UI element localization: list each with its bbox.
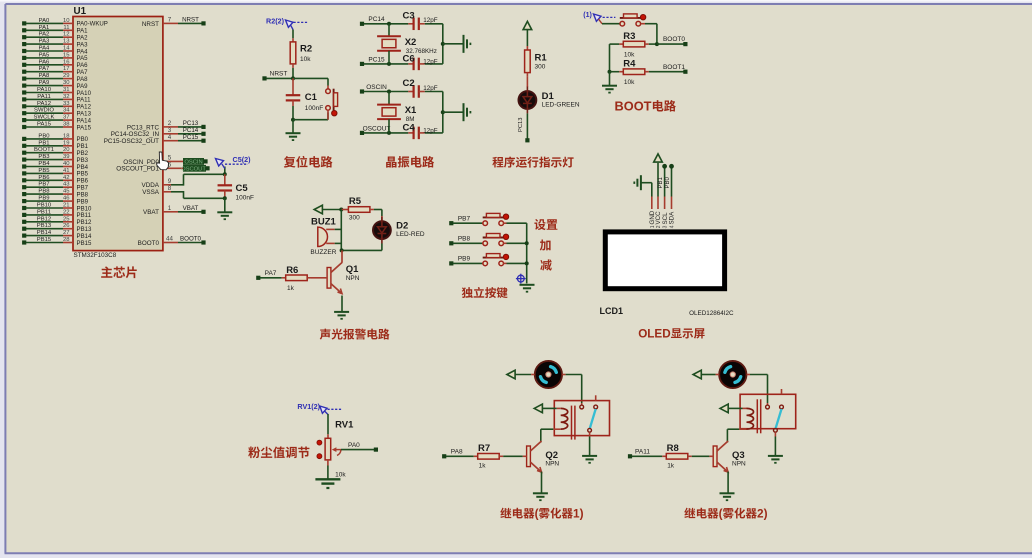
BOOT circuit red label BOOT电路: [615, 97, 677, 115]
resistor R8: [662, 454, 713, 460]
chip pin PB0 (pin 18, net PB0) wire: [22, 133, 89, 143]
svg-text:SWCLK: SWCLK: [34, 115, 55, 121]
chip pin PB3 (pin 39, net PB3) wire: [22, 154, 89, 164]
relay RL2 coil: [747, 408, 754, 429]
svg-text:PB7: PB7: [38, 182, 49, 188]
node junction under OSCOUT: [387, 131, 391, 135]
relay RL1 body: [554, 401, 609, 440]
chip pin PB2 (pin 20, net BOOT1) wire: [22, 147, 89, 157]
svg-text:13: 13: [63, 39, 70, 45]
relay RL2 switch to ground: [774, 432, 776, 455]
svg-text:LED-RED: LED-RED: [396, 231, 425, 238]
chip pin VSSA (pin 8) wire: [142, 185, 183, 196]
svg-text:NRST: NRST: [182, 17, 199, 24]
U1 value label STM32F103C8: [74, 252, 117, 259]
C2 value 12pF: [423, 85, 438, 92]
label 减: [540, 257, 552, 274]
svg-text:晶振电路: 晶振电路: [385, 152, 435, 170]
blue net label RV1(2) with selection arrow: [297, 402, 341, 415]
main chip red label 主芯片: [101, 262, 139, 281]
svg-text:D1: D1: [542, 91, 555, 102]
resistor R5: [341, 207, 382, 213]
wire D2 to collector node: [342, 244, 382, 251]
chip pin PA2 (pin 12, net PA2) wire: [22, 32, 88, 42]
net terminal PB9: [449, 256, 482, 266]
svg-text:PB12: PB12: [37, 216, 51, 222]
svg-text:STM32F103C8: STM32F103C8: [74, 252, 117, 259]
svg-text:主芯片: 主芯片: [101, 262, 139, 281]
LCD1 pin 3 SCL: [662, 197, 669, 229]
svg-text:PB5: PB5: [38, 168, 50, 174]
X1 reference label: [405, 105, 417, 116]
C1 reference label: [305, 92, 318, 103]
svg-text:Q3: Q3: [732, 450, 745, 461]
chip pin PA9 (pin 30, net PA9) wire: [22, 80, 88, 90]
chip pin PB9 (pin 46, net PB9) wire: [22, 196, 89, 206]
svg-text:PA15: PA15: [37, 122, 52, 128]
chip pin PB8 (pin 45, net PB8) wire: [22, 189, 89, 199]
svg-text:PB10: PB10: [37, 203, 52, 209]
svg-text:OLED12864I2C: OLED12864I2C: [689, 310, 734, 317]
net PA0 wire and terminal: [341, 442, 378, 452]
svg-text:RV1: RV1: [335, 420, 354, 431]
X1 value: [406, 116, 415, 123]
op-amp U1 main chip STM32F103C8 body: [73, 17, 163, 251]
relay RL1 switch to ground: [589, 432, 591, 455]
Q3 value NPN: [732, 461, 746, 468]
svg-text:PC14: PC14: [368, 16, 385, 23]
capacitor C2: [408, 85, 443, 98]
power symbol above R1: [523, 21, 532, 29]
svg-text:PB0: PB0: [38, 133, 50, 139]
svg-text:OSCIN: OSCIN: [184, 160, 202, 166]
svg-text:PA8: PA8: [77, 76, 89, 83]
R6 reference label: [286, 265, 298, 276]
D1 reference label: [542, 91, 555, 102]
R7 value 1k: [479, 462, 487, 469]
svg-text:10: 10: [63, 18, 70, 24]
svg-text:C5(2): C5(2): [233, 155, 252, 164]
X2 reference label: [405, 37, 417, 48]
svg-text:BOOT电路: BOOT电路: [615, 97, 677, 115]
LCD1 reference label: [600, 306, 624, 316]
blue selection arrow cursor near C5: [216, 159, 225, 169]
svg-text:OSCOUT: OSCOUT: [181, 167, 206, 173]
svg-text:Q1: Q1: [346, 264, 359, 275]
chip pin PB13 (pin 26, net PB13) wire: [22, 223, 92, 233]
wire BOOT button to BOOT0 node: [641, 24, 657, 44]
svg-text:29: 29: [63, 73, 70, 79]
BOOT push button: [620, 14, 646, 26]
R2 value 10k: [300, 56, 311, 63]
svg-text:R4: R4: [623, 59, 636, 70]
NRST net terminal: [262, 71, 293, 81]
svg-text:X1: X1: [405, 105, 417, 116]
transistor Q1: [327, 250, 342, 293]
wire motor M2 to relay RL2: [747, 375, 768, 406]
relay RL1 coil: [561, 408, 568, 429]
svg-text:9: 9: [168, 178, 172, 185]
svg-text:PA11: PA11: [635, 448, 650, 455]
svg-text:37: 37: [63, 115, 70, 121]
LCD1 value OLED12864I2C: [689, 310, 734, 317]
net terminal PB7: [449, 215, 482, 225]
svg-text:32.768KHz: 32.768KHz: [406, 48, 437, 55]
chip pin PA5 (pin 15, net PA5) wire: [22, 52, 88, 62]
svg-text:PB0: PB0: [665, 176, 671, 188]
svg-text:PA7: PA7: [39, 66, 50, 72]
svg-text:15: 15: [63, 52, 70, 58]
BUZ1 value BUZZER: [310, 249, 336, 256]
wire from R2(2) stub down to R2: [292, 30, 294, 39]
wire to BOOT button: [602, 23, 620, 25]
push button PB7: [482, 213, 509, 225]
R4 value 10k: [624, 79, 635, 86]
svg-text:PC13: PC13: [518, 117, 524, 132]
power symbol left of R5: [314, 205, 322, 214]
chip pin PA4 (pin 14, net PA4) wire: [22, 46, 88, 56]
svg-text:PB9: PB9: [458, 256, 471, 263]
svg-text:OSCOUT: OSCOUT: [363, 125, 391, 132]
wire VSSA to C5 bottom node: [184, 191, 225, 198]
svg-text:PB3: PB3: [38, 154, 50, 160]
svg-text:VBAT: VBAT: [143, 209, 159, 216]
svg-text:C5: C5: [236, 183, 249, 194]
net terminal PC15: [360, 56, 408, 66]
svg-text:C3: C3: [403, 11, 415, 22]
svg-text:NPN: NPN: [346, 275, 360, 282]
D2 value LED-RED: [396, 231, 425, 238]
chip pin PC13_RTC (pin 2, net PC13) wire: [127, 120, 206, 131]
net BOOT1 label and terminal: [663, 64, 688, 74]
wire NRST node to reset button top: [293, 78, 328, 85]
net terminal OSCIN: [360, 84, 408, 94]
net BOOT0 wire and terminal: [657, 36, 688, 46]
power symbol left of relay RL1 coil: [534, 404, 561, 413]
svg-text:44: 44: [166, 236, 173, 243]
svg-text:PB11: PB11: [37, 209, 51, 215]
dust adjust red label 粉尘值调节: [248, 443, 310, 461]
ground under relay RL1 switch: [582, 456, 597, 464]
svg-text:4: 4: [168, 134, 172, 141]
svg-text:BOOT1: BOOT1: [663, 64, 685, 71]
svg-text:8M: 8M: [406, 116, 415, 123]
svg-text:12pF: 12pF: [423, 59, 438, 66]
R8 reference label: [667, 443, 679, 454]
chip pin PA12 (pin 33, net PA12) wire: [22, 101, 91, 111]
relay RL2 pin circles and stub: [766, 389, 784, 409]
ground (rotated) of X2 circuit: [464, 35, 472, 53]
R1 reference label: [535, 53, 548, 64]
C3 value 12pF: [423, 17, 438, 24]
svg-text:PC15-OSC32_OUT: PC15-OSC32_OUT: [104, 138, 159, 145]
chip pin PB15 (pin 28, net PB15) wire: [22, 237, 92, 247]
svg-text:PA10: PA10: [37, 87, 52, 93]
svg-text:100nF: 100nF: [236, 194, 254, 201]
svg-text:减: 减: [540, 257, 552, 274]
svg-text:加: 加: [539, 236, 551, 253]
RV1 value 10k: [335, 472, 346, 479]
svg-text:1k: 1k: [667, 462, 675, 469]
svg-text:PB7: PB7: [458, 215, 471, 222]
svg-text:NPN: NPN: [545, 461, 559, 468]
ground of RV1 (large): [315, 479, 340, 489]
wire ground node to button bottom: [293, 113, 328, 120]
R5 value 300: [349, 215, 360, 222]
svg-text:PB9: PB9: [38, 196, 49, 202]
svg-text:PB15: PB15: [37, 237, 52, 243]
chip pin PB10 (pin 21, net PB10) wire: [22, 203, 92, 213]
svg-text:粉尘值调节: 粉尘值调节: [248, 443, 310, 461]
svg-text:VSSA: VSSA: [142, 189, 160, 196]
chip pin OSCOUT_PD1 (pin 6) with highlighted net label OSCOUT: [116, 162, 209, 173]
svg-text:2: 2: [656, 225, 662, 228]
Q2 value NPN: [545, 461, 559, 468]
svg-text:BUZ1: BUZ1: [311, 217, 337, 228]
relay RL1 pin circles and stub: [580, 395, 598, 409]
svg-text:45: 45: [63, 189, 70, 195]
chip pin PC15-OSC32_OUT (pin 4, net PC15) wire: [104, 134, 206, 145]
chip pin PC14-OSC32_IN (pin 3, net PC14) wire: [111, 127, 206, 138]
svg-text:8: 8: [168, 185, 172, 192]
svg-text:程序运行指示灯: 程序运行指示灯: [492, 153, 574, 170]
relay RL2 body: [740, 394, 796, 433]
alarm circuit red label 声光报警电路: [320, 326, 390, 343]
svg-text:100nF: 100nF: [305, 105, 323, 112]
svg-text:LED-GREEN: LED-GREEN: [542, 102, 580, 109]
vertical bus from R5 node down to Q1: [340, 210, 344, 253]
svg-text:17: 17: [63, 66, 70, 72]
svg-text:R7: R7: [478, 443, 490, 454]
svg-text:C4: C4: [403, 122, 416, 133]
svg-text:RV1(2): RV1(2): [297, 402, 320, 411]
R3 reference label: [623, 31, 635, 42]
chip pin PB12 (pin 25, net PB12) wire: [22, 216, 92, 226]
ground of Q1 emitter: [334, 296, 349, 320]
ground of Q3 emitter: [720, 472, 735, 501]
svg-text:PA2: PA2: [39, 32, 50, 38]
C5 value 100nF: [236, 194, 254, 201]
capacitor C4: [408, 127, 443, 139]
chip pin OSCIN_PD0 (pin 5) with highlighted net label OSCIN: [123, 155, 207, 166]
svg-text:PB1: PB1: [658, 176, 664, 188]
svg-text:设置: 设置: [534, 216, 558, 233]
ground under relay RL2 switch: [768, 456, 783, 464]
push button PB8: [482, 234, 509, 246]
chip pin PB1 (pin 19, net PB1) wire: [22, 140, 89, 150]
R6 value 1k: [287, 285, 295, 292]
svg-text:32: 32: [63, 94, 70, 100]
BUZ1 reference label: [311, 217, 337, 228]
svg-text:39: 39: [63, 154, 70, 160]
power symbol left of motor M1: [507, 370, 535, 379]
buzzer BUZ1: [318, 227, 342, 246]
chip pin PB14 (pin 27, net PB14) wire: [22, 230, 92, 240]
svg-text:复位电路: 复位电路: [283, 152, 333, 170]
svg-text:20: 20: [63, 147, 70, 153]
svg-text:SDA: SDA: [669, 211, 676, 225]
power symbol left of relay RL2 coil: [720, 404, 747, 413]
chip pin PA0-WKUP (pin 10, net PA0) wire: [22, 18, 108, 28]
node BOOT0 junction: [655, 42, 659, 46]
crystal X1: [377, 92, 401, 133]
svg-text:PB14: PB14: [37, 230, 52, 236]
svg-text:BOOT1: BOOT1: [34, 147, 54, 153]
R5 reference label: [349, 196, 362, 207]
svg-text:R8: R8: [667, 443, 679, 454]
svg-text:SWDIO: SWDIO: [34, 108, 54, 114]
motor fan M1: [535, 361, 562, 388]
svg-text:10k: 10k: [300, 56, 311, 63]
svg-text:PA8: PA8: [39, 73, 50, 79]
OLED SDA wire to PB0 terminal: [665, 164, 674, 197]
wire VDDA to C5 top node: [184, 174, 225, 185]
chip pin PB5 (pin 41, net PB5) wire: [22, 168, 89, 178]
resistor R7: [474, 454, 527, 460]
relay RL1 switch blade: [588, 409, 596, 432]
svg-text:PA8: PA8: [451, 448, 463, 455]
svg-text:21: 21: [63, 203, 70, 209]
net terminal PC14: [360, 16, 408, 26]
push button PB9: [482, 254, 509, 266]
svg-text:PA7: PA7: [265, 270, 277, 277]
OLED SCL wire to PB1 terminal: [658, 164, 667, 197]
svg-text:PB13: PB13: [37, 223, 52, 229]
svg-text:300: 300: [535, 64, 546, 71]
svg-text:PA0: PA0: [39, 18, 50, 24]
net terminal PA8: [442, 448, 474, 458]
C1 value 100nF: [305, 105, 323, 112]
D1 value LED-GREEN: [542, 102, 580, 109]
svg-text:OSCOUT_PD1: OSCOUT_PD1: [116, 166, 159, 173]
svg-text:38: 38: [63, 122, 70, 128]
svg-text:NRST: NRST: [270, 71, 288, 78]
wire R5 down to D2: [381, 210, 383, 222]
svg-text:40: 40: [63, 161, 70, 167]
svg-text:10k: 10k: [624, 51, 635, 58]
svg-text:27: 27: [63, 230, 70, 236]
chip pin VBAT (pin 1, net VBAT) wire: [143, 205, 206, 216]
svg-text:PB4: PB4: [38, 161, 50, 167]
svg-text:VBAT: VBAT: [183, 205, 199, 212]
Q1 value NPN: [346, 275, 360, 282]
wire R1 to D1: [526, 77, 528, 87]
wire right side of X1 caps: [441, 92, 463, 133]
ground of reset circuit: [286, 120, 301, 141]
chip pin NRST (pin 7, net NRST) wire: [142, 17, 206, 28]
svg-text:PC15: PC15: [183, 134, 199, 141]
wire R2 to NRST node: [292, 68, 294, 79]
svg-text:PB15: PB15: [77, 240, 93, 247]
wire power to R5 node: [322, 208, 343, 212]
svg-text:PA15: PA15: [77, 124, 92, 131]
transistor Q2: [527, 441, 542, 472]
svg-text:12pF: 12pF: [423, 85, 438, 92]
ground of button bus: [520, 285, 535, 293]
resistor R1: [525, 30, 531, 77]
crystal circuit red label 晶振电路: [385, 152, 435, 170]
wire D1 to PC13 terminal: [518, 113, 530, 142]
svg-text:PB8: PB8: [38, 189, 50, 195]
svg-text:BUZZER: BUZZER: [310, 249, 336, 256]
svg-text:33: 33: [63, 101, 70, 107]
svg-text:46: 46: [63, 196, 70, 202]
chip pin BOOT0 (pin 44, net BOOT0) wire: [138, 236, 206, 247]
node NRST junction: [291, 76, 295, 80]
svg-text:1k: 1k: [287, 285, 295, 292]
chip pin PA15 (pin 38, net PA15) wire: [22, 122, 91, 132]
svg-text:PB8: PB8: [77, 191, 89, 198]
relay circuit red label 继电器(雾化器2): [684, 505, 767, 521]
svg-text:31: 31: [63, 87, 70, 93]
svg-text:42: 42: [63, 175, 70, 181]
reset circuit red label 复位电路: [283, 152, 333, 170]
svg-text:300: 300: [349, 215, 360, 222]
C6 value 12pF: [423, 59, 438, 66]
LED D2 (LED-RED): [373, 217, 391, 244]
svg-text:PB1: PB1: [38, 140, 49, 146]
node junction under OSCIN: [387, 90, 391, 94]
reset push button (vertical): [326, 86, 338, 120]
R4 reference label: [623, 59, 636, 70]
net terminal PB8: [449, 235, 482, 245]
svg-text:PA6: PA6: [39, 59, 50, 65]
svg-text:43: 43: [63, 182, 70, 188]
svg-text:C1: C1: [305, 92, 318, 103]
RV1 reference label: [335, 420, 354, 431]
svg-text:10k: 10k: [624, 79, 635, 86]
relay RL2 switch blade: [774, 409, 782, 432]
svg-text:PA11: PA11: [37, 94, 51, 100]
OLED VCC power arrow: [654, 154, 663, 197]
svg-text:VDDA: VDDA: [142, 182, 160, 189]
svg-text:PA0: PA0: [348, 442, 360, 449]
svg-text:30: 30: [63, 80, 70, 86]
power symbol left of motor M2: [693, 370, 719, 379]
node below C5 / wire to ground: [223, 196, 227, 212]
wire R3 left down to R4: [608, 44, 612, 74]
svg-text:继电器(雾化器2): 继电器(雾化器2): [684, 505, 767, 521]
chip pin PB4 (pin 40, net PB4) wire: [22, 161, 89, 171]
svg-text:3: 3: [663, 225, 669, 228]
svg-text:1: 1: [650, 225, 656, 228]
svg-text:R3: R3: [623, 31, 635, 42]
blue origin marker: [516, 274, 526, 284]
capacitor C5: [218, 174, 233, 198]
LCD1 OLED display body: [605, 232, 724, 289]
svg-text:OLED显示屏: OLED显示屏: [638, 325, 705, 341]
chip pin PA13 (pin 34, net SWDIO) wire: [22, 108, 91, 118]
C4 value 12pF: [423, 128, 438, 135]
indicator red label 程序运行指示灯: [492, 153, 574, 170]
C2 reference label: [403, 78, 415, 89]
svg-text:PA9: PA9: [39, 80, 50, 86]
Q3 reference label: [732, 450, 745, 461]
svg-text:12: 12: [63, 32, 70, 38]
svg-text:NRST: NRST: [142, 21, 159, 28]
svg-text:R5: R5: [349, 196, 362, 207]
blue net label (1) with selection arrow: [583, 12, 615, 24]
node above C5: [223, 167, 227, 177]
relay circuit red label 继电器(雾化器1): [500, 505, 583, 521]
capacitor C3: [408, 18, 443, 31]
chip pin PB7 (pin 43, net PB7) wire: [22, 182, 89, 192]
ground of Q2 emitter: [533, 472, 548, 501]
svg-text:Q2: Q2: [545, 450, 558, 461]
net terminal OSCOUT: [360, 125, 408, 135]
net terminal PA11: [628, 448, 662, 458]
LCD1 pin 1 GND: [649, 197, 656, 229]
